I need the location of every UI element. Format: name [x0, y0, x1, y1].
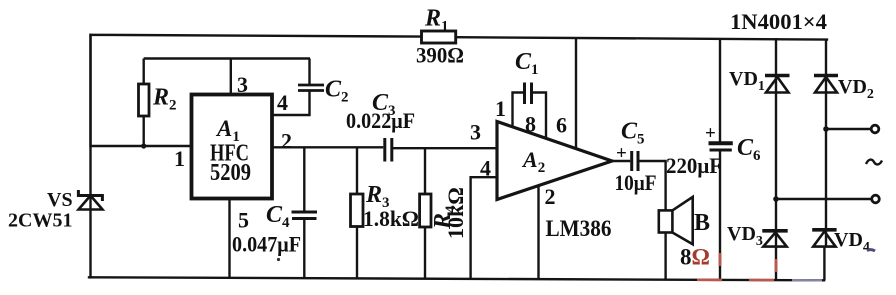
resistor R3 [351, 194, 364, 227]
wire C4 bottom lead [303, 219, 305, 279]
diode VD3 [762, 231, 787, 247]
wire R2 top lead [142, 59, 144, 85]
svg-text:+: + [705, 123, 716, 144]
svg-text:R1: R1 [424, 6, 449, 35]
terminal upper circle [871, 125, 879, 133]
svg-text:C6: C6 [737, 135, 761, 164]
svg-text:C1: C1 [515, 49, 539, 78]
svg-text:220μF: 220μF [666, 153, 722, 178]
wire left rail [89, 35, 91, 278]
node R2-pin1 junction [141, 143, 146, 148]
capacitor C3 [385, 138, 392, 162]
svg-text:10kΩ: 10kΩ [443, 187, 468, 239]
svg-text:B: B [694, 210, 710, 236]
stray scan dot [277, 258, 280, 261]
wire A1 pin2 line [272, 146, 383, 148]
capacitor C1 [525, 83, 532, 105]
op-amp A2 LM386 triangle [497, 122, 612, 200]
node lower terminal junction [773, 196, 779, 202]
svg-text:1: 1 [495, 96, 506, 121]
wire bridge left branch [775, 38, 777, 280]
svg-text:2: 2 [545, 184, 556, 209]
wire top rail right [456, 37, 827, 39]
speaker B [659, 197, 693, 244]
wire R3 bottom lead [356, 227, 358, 279]
diode VD1 [765, 76, 790, 93]
capacitor C5 [632, 151, 638, 171]
svg-text:1N4001×4: 1N4001×4 [730, 9, 827, 34]
svg-text:VS: VS [47, 189, 73, 211]
wire A2 pin2 lead [537, 185, 539, 280]
wire R4 bottom lead [424, 227, 426, 279]
watermark red dash bottom rail 2 [749, 279, 774, 282]
label AC tilde [866, 160, 882, 165]
resistor R2 [139, 84, 150, 116]
resistor R1 [422, 31, 456, 43]
capacitor C6 [709, 143, 733, 150]
wire bottom rail [89, 277, 824, 280]
wire A2 pin6 lead [575, 38, 577, 149]
wire speaker bottom lead [664, 233, 666, 281]
watermark red segment C6 wire [719, 253, 722, 266]
wire A2 pin1 lead [513, 93, 524, 128]
wire C3 to A2 pin3 [392, 147, 497, 149]
wire C6 bottom lead [719, 150, 721, 280]
wire AC terminal upper [826, 128, 872, 130]
wire C5 to speaker [638, 161, 666, 210]
svg-text:3: 3 [470, 120, 481, 145]
watermark blue dash bottom rail [792, 279, 822, 281]
wire inner top line [144, 57, 310, 59]
svg-text:VD1: VD1 [729, 68, 765, 94]
wire C2 top lead [308, 59, 310, 86]
wire R2 bottom lead [142, 116, 144, 146]
wire R4 top lead [424, 148, 426, 194]
svg-text:+: + [616, 143, 627, 164]
wire bridge right branch [825, 39, 827, 247]
terminal lower circle [872, 195, 880, 203]
watermark blue squiggle [867, 250, 875, 251]
svg-text:C2: C2 [325, 77, 349, 106]
wire A2 output [612, 160, 630, 162]
diode VD2 [814, 76, 838, 93]
svg-text:C4: C4 [266, 202, 290, 231]
svg-text:R2: R2 [152, 85, 177, 114]
wire C6 top lead [719, 39, 721, 144]
wire C1 to pin8 [533, 93, 546, 139]
svg-text:0.047μF: 0.047μF [232, 232, 301, 257]
wire C2 bottom lead [272, 91, 310, 116]
svg-text:1: 1 [174, 146, 185, 171]
op-amp block A1 HFC5209 [192, 95, 273, 199]
svg-text:8Ω: 8Ω [680, 245, 710, 270]
diode VD4 [812, 230, 836, 247]
svg-text:A2: A2 [521, 147, 545, 176]
wire A1 pin1 line [91, 145, 192, 147]
wire A1 pin3 lead [230, 59, 232, 95]
node upper terminal junction [823, 126, 829, 132]
svg-text:VD4: VD4 [834, 229, 870, 255]
svg-text:8: 8 [525, 112, 536, 137]
svg-text:390Ω: 390Ω [416, 43, 464, 68]
svg-text:5209: 5209 [210, 160, 251, 186]
watermark red dash bottom rail 1 [697, 278, 722, 281]
svg-text:1.8kΩ: 1.8kΩ [363, 206, 419, 231]
svg-text:0.022μF: 0.022μF [346, 108, 415, 133]
resistor R4 [420, 194, 431, 227]
svg-text:5: 5 [238, 208, 249, 233]
svg-text:6: 6 [556, 113, 567, 138]
wire R3 top lead [356, 147, 358, 194]
svg-text:2CW51: 2CW51 [8, 210, 72, 232]
svg-text:VD3: VD3 [727, 223, 763, 249]
svg-text:LM386: LM386 [546, 216, 612, 241]
wire A1 pin5 lead [228, 199, 230, 279]
svg-text:C5: C5 [621, 119, 645, 148]
svg-text:10μF: 10μF [615, 170, 657, 195]
capacitor C2 [298, 85, 324, 91]
capacitor C4 [292, 212, 318, 219]
wire AC terminal lower [776, 198, 872, 200]
wire bridge right branch bottom [823, 247, 825, 281]
svg-text:4: 4 [277, 90, 288, 115]
wire top rail left [91, 35, 422, 146]
svg-text:2: 2 [281, 129, 292, 154]
wire A2 pin4 [471, 177, 497, 279]
svg-text:VD2: VD2 [838, 76, 874, 102]
zener diode VS 2CW51 [78, 190, 102, 210]
wire C4 top lead [303, 147, 305, 212]
watermark red segment VD3 wire [775, 259, 778, 272]
